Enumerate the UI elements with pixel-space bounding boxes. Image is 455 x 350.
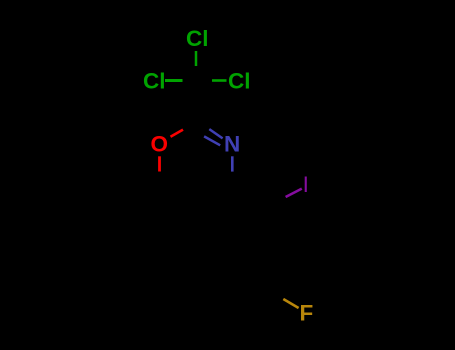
svg-text:Cl: Cl <box>143 68 166 93</box>
bond C-Cl left (green half) <box>165 79 183 82</box>
bond C-Cl top (green half) <box>195 51 198 66</box>
double bond C2=N lower line (blue half) <box>204 136 220 145</box>
svg-text:F: F <box>300 301 314 326</box>
svg-text:Cl: Cl <box>228 68 251 93</box>
bond C-Cl right (green half) <box>212 79 227 82</box>
svg-text:Cl: Cl <box>186 26 209 51</box>
svg-text:O: O <box>151 132 169 157</box>
svg-text:I: I <box>303 172 309 197</box>
bond C-I (purple half) <box>286 189 302 197</box>
bond O-C2 (red half, up-right) <box>171 130 184 137</box>
double bond C2=N upper line (blue half) <box>209 129 222 138</box>
svg-text:N: N <box>224 131 240 156</box>
bond O-C8a (red half, down) <box>158 156 161 171</box>
bond N-C4 (blue half, down) <box>231 156 234 171</box>
bond C-F (gold half) <box>283 299 298 308</box>
